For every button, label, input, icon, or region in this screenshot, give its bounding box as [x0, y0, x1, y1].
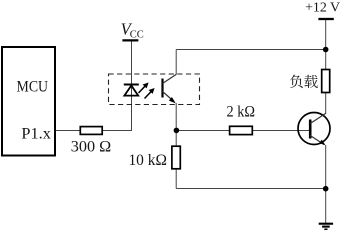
svg-text:P1.x: P1.x [21, 125, 51, 143]
svg-text:CC: CC [130, 29, 144, 40]
svg-text:+12 V: +12 V [305, 0, 340, 15]
svg-text:300 Ω: 300 Ω [71, 139, 112, 156]
svg-text:2 kΩ: 2 kΩ [227, 104, 256, 121]
svg-text:10 kΩ: 10 kΩ [128, 152, 167, 169]
svg-text:MCU: MCU [17, 78, 49, 96]
